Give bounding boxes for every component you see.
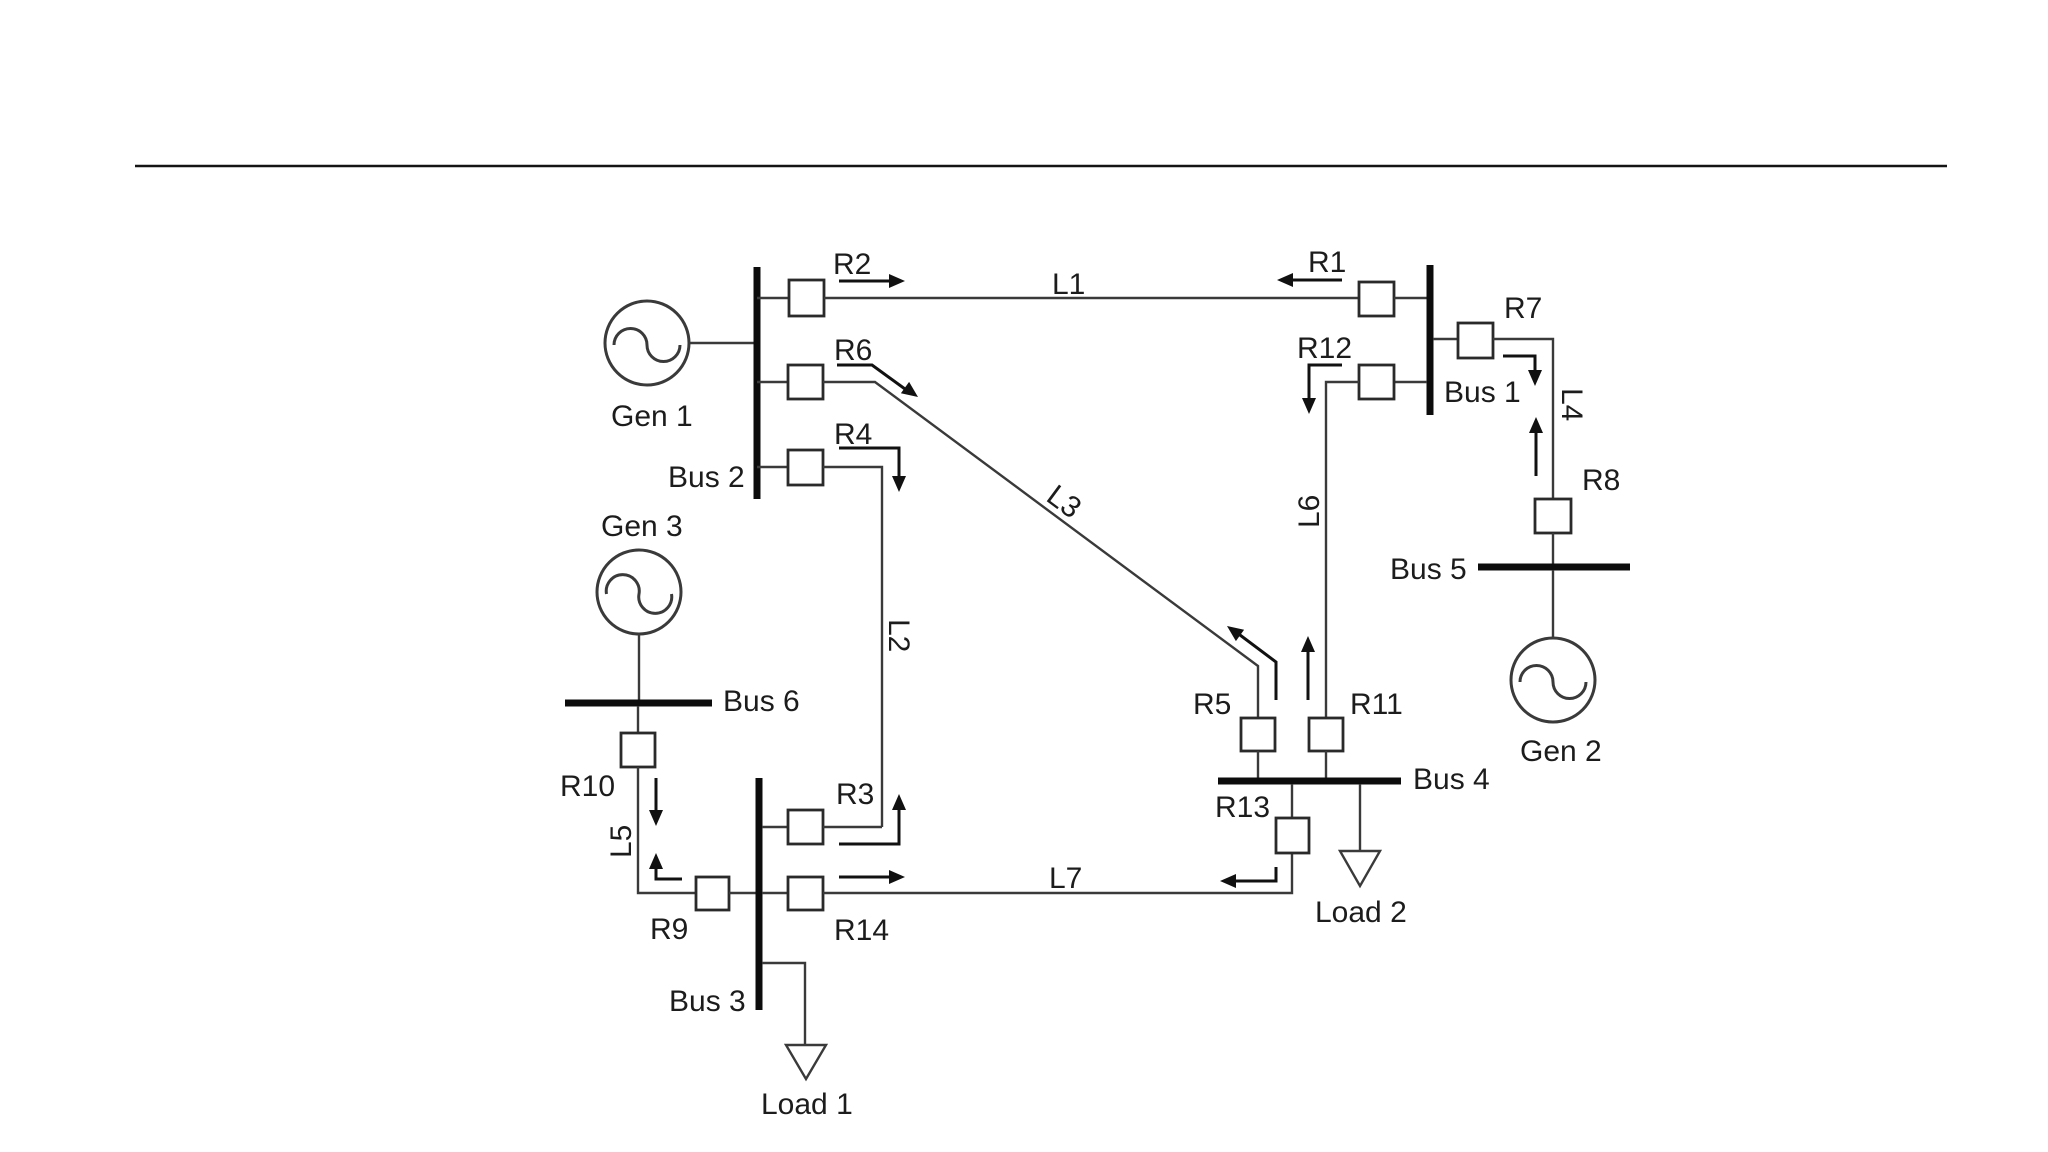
R11 arrow — [1301, 636, 1315, 700]
svg-text:R3: R3 — [836, 778, 874, 811]
breaker R4 — [788, 450, 823, 485]
bus bar Bus 5 — [1478, 564, 1630, 571]
svg-text:Bus 5: Bus 5 — [1390, 553, 1467, 586]
R1 arrow — [1277, 273, 1342, 287]
line L1 wire — [824, 297, 1359, 299]
svg-text:Bus 1: Bus 1 — [1444, 376, 1521, 409]
svg-text:R4: R4 — [834, 418, 872, 451]
wire Bus6 to R10 — [637, 706, 639, 733]
bus bar Bus 1 — [1427, 265, 1434, 415]
breaker R8 — [1535, 499, 1571, 533]
bus bar Bus 4 — [1218, 778, 1401, 785]
svg-text:L2: L2 — [882, 619, 915, 652]
breaker R2 — [789, 280, 824, 316]
R12 arrow — [1302, 365, 1342, 414]
wire R1 to Bus1 — [1394, 297, 1427, 299]
svg-text:R12: R12 — [1297, 332, 1352, 365]
svg-text:L7: L7 — [1049, 862, 1082, 895]
svg-text:R7: R7 — [1504, 292, 1542, 325]
wire R5 to Bus4 — [1257, 751, 1259, 778]
wire Bus1 to R12 — [1394, 381, 1427, 383]
svg-text:L6: L6 — [1293, 495, 1326, 528]
svg-text:Gen 1: Gen 1 — [611, 400, 693, 433]
wire Gen3 to Bus6 — [638, 634, 640, 700]
svg-text:R10: R10 — [560, 770, 615, 803]
line L3 wire — [823, 382, 1258, 718]
line L2 wire — [823, 467, 882, 827]
svg-text:R11: R11 — [1350, 688, 1403, 721]
wire Bus4 to R13 — [1291, 784, 1293, 818]
wire Gen1 to Bus2 — [689, 342, 754, 344]
svg-text:R8: R8 — [1582, 464, 1620, 497]
wire R8 to Bus5 — [1552, 533, 1554, 564]
svg-text:R9: R9 — [650, 913, 688, 946]
breaker R9 — [696, 877, 729, 910]
svg-text:Load 2: Load 2 — [1315, 896, 1407, 929]
R13 arrow — [1220, 867, 1276, 888]
breaker R11 — [1309, 718, 1343, 751]
generator G1 symbol — [605, 301, 689, 385]
wire Bus1 to R7 — [1433, 338, 1458, 340]
L5 arrow — [649, 853, 682, 879]
breaker R13 — [1276, 818, 1309, 853]
wire Bus3 to Load1 — [762, 963, 805, 1046]
R14 arrow — [839, 870, 905, 884]
wire Bus3 to R3 — [762, 826, 788, 828]
breaker R7 — [1458, 323, 1493, 358]
R6 arrow — [837, 365, 918, 397]
top rule — [135, 165, 1947, 168]
R3 arrow — [839, 794, 906, 844]
svg-text:Gen 3: Gen 3 — [601, 510, 683, 543]
breaker R14 — [788, 877, 823, 910]
line L5 wire — [638, 767, 696, 893]
breaker R5 — [1241, 718, 1275, 751]
wire Bus5 to Gen2 — [1552, 570, 1554, 639]
load symbol Load 2 — [1340, 851, 1380, 886]
wire R3 to L2 — [823, 826, 882, 828]
svg-text:Bus 4: Bus 4 — [1413, 763, 1490, 796]
wire Bus2 to R4 — [757, 466, 788, 468]
bus bar Bus 3 — [756, 778, 763, 1010]
svg-text:L5: L5 — [605, 825, 638, 858]
svg-text:Load 1: Load 1 — [761, 1088, 853, 1121]
line L6 wire — [1326, 382, 1359, 718]
line L7 wire — [823, 853, 1292, 893]
breaker R10 — [621, 733, 655, 767]
svg-text:Bus 3: Bus 3 — [669, 985, 746, 1018]
svg-text:Bus 2: Bus 2 — [668, 461, 745, 494]
wire Bus3 to R14 — [762, 892, 788, 894]
R5 arrow — [1227, 626, 1276, 700]
wire Bus2 to R2 — [757, 297, 789, 299]
breaker R3 — [788, 810, 823, 844]
bus bar Bus 2 — [754, 267, 761, 499]
svg-text:R2: R2 — [833, 248, 871, 281]
svg-text:Gen 2: Gen 2 — [1520, 735, 1602, 768]
breaker R1 — [1359, 282, 1394, 316]
breaker R6 — [788, 365, 823, 399]
L4 arrow — [1529, 417, 1543, 476]
svg-text:L4: L4 — [1555, 388, 1588, 421]
svg-text:R1: R1 — [1308, 246, 1346, 279]
wire Bus4 to Load2 — [1359, 784, 1361, 851]
breaker R12 — [1359, 365, 1394, 399]
R2 arrow — [839, 274, 905, 288]
wire Bus2 to R6 — [757, 381, 788, 383]
wire R11 to Bus4 — [1325, 751, 1327, 778]
line L4 wire — [1493, 339, 1553, 499]
bus bar Bus 6 — [565, 700, 712, 707]
svg-text:Bus 6: Bus 6 — [723, 685, 800, 718]
generator G3 symbol — [597, 550, 681, 634]
svg-text:R13: R13 — [1215, 791, 1270, 824]
svg-text:R5: R5 — [1193, 688, 1231, 721]
R4 arrow — [839, 448, 906, 492]
svg-text:L1: L1 — [1052, 268, 1085, 301]
load symbol Load 1 — [786, 1045, 826, 1079]
wire R9 to Bus3 — [729, 892, 756, 894]
R7 arrow — [1503, 356, 1542, 386]
svg-text:R6: R6 — [834, 334, 872, 367]
generator G2 symbol — [1511, 638, 1595, 722]
svg-text:R14: R14 — [834, 914, 889, 947]
R10 arrow — [649, 778, 663, 826]
